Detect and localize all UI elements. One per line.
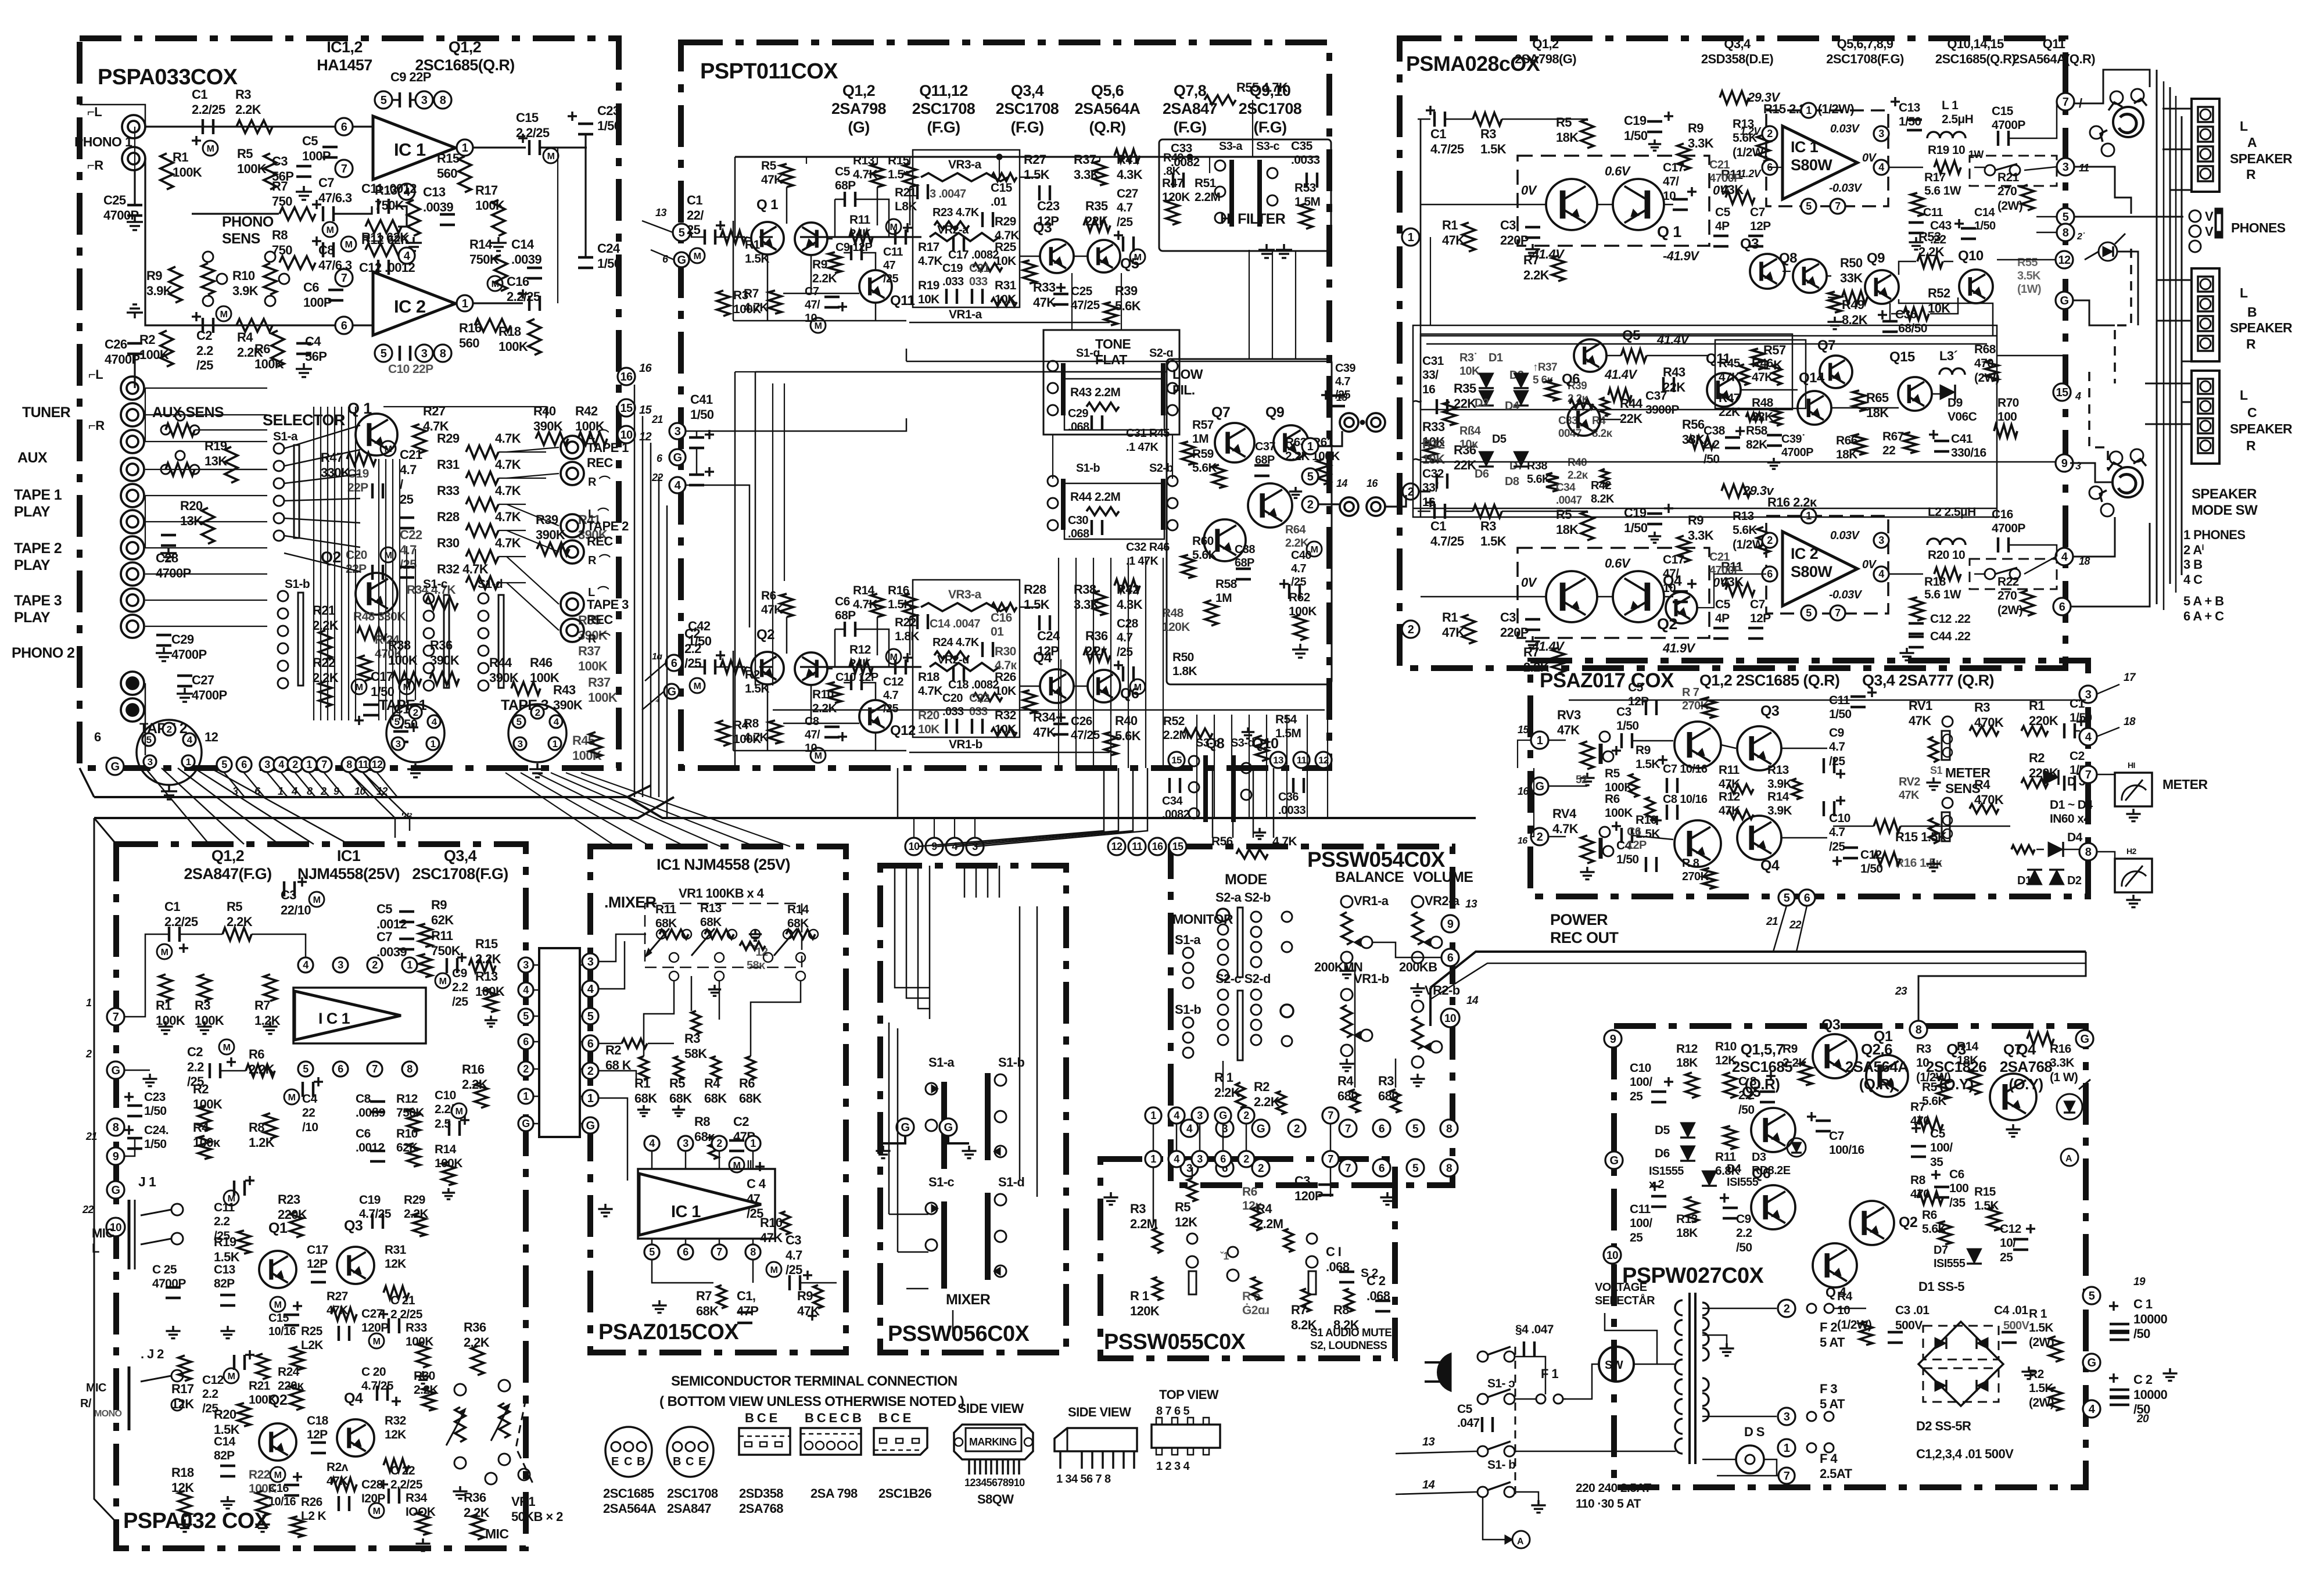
svg-text:A: A	[2065, 1154, 2072, 1164]
svg-text:R18: R18	[171, 1465, 194, 1480]
svg-text:3: 3	[1878, 534, 1884, 546]
svg-text:C22: C22	[969, 692, 989, 705]
svg-text:C26: C26	[1071, 715, 1092, 728]
svg-text:8 7 6 5: 8 7 6 5	[1156, 1405, 1189, 1418]
block B mid empty frame wires	[735, 371, 1167, 372]
svg-text:VR1-a: VR1-a	[1354, 894, 1389, 908]
svg-text:Q3,4: Q3,4	[1011, 82, 1044, 99]
svg-text:IN60 x4: IN60 x4	[2050, 812, 2090, 826]
svg-text:S80W: S80W	[1791, 156, 1832, 174]
svg-text:10K: 10K	[1459, 365, 1480, 378]
svg-text:R4: R4	[1837, 1290, 1853, 1303]
svg-text:68K: 68K	[739, 1091, 762, 1106]
svg-text:/10: /10	[302, 1121, 318, 1134]
svg-text:1.8K: 1.8K	[895, 630, 919, 643]
svg-text:5: 5	[2063, 211, 2069, 224]
svg-text:3: 3	[396, 738, 401, 749]
svg-text:1M: 1M	[1215, 591, 1232, 605]
svg-text:C9 22P: C9 22P	[390, 70, 431, 84]
svg-text:.01: .01	[991, 195, 1007, 209]
svg-text:R19: R19	[918, 279, 939, 292]
tone flat outer box	[1043, 330, 1179, 435]
svg-text:C5: C5	[835, 165, 851, 178]
svg-text:1: 1	[750, 1138, 756, 1149]
svg-text:L2K: L2K	[301, 1339, 323, 1352]
svg-text:R29: R29	[404, 1193, 425, 1207]
svg-text:4.7: 4.7	[786, 1248, 802, 1262]
svg-text:4: 4	[2089, 1403, 2096, 1416]
capacitor C41 330/16	[1929, 433, 1938, 436]
svg-text:R6: R6	[1605, 792, 1620, 806]
svg-text:120P: 120P	[361, 1321, 389, 1335]
transistor Q1b	[1613, 571, 1664, 622]
svg-text:C5: C5	[302, 134, 318, 148]
terminal 1	[1531, 731, 1548, 749]
svg-text:1.5M: 1.5M	[1294, 195, 1320, 209]
main rail wires	[1418, 119, 1430, 120]
svg-text:100K: 100K	[254, 357, 284, 371]
svg-text:D S: D S	[1744, 1425, 1764, 1439]
svg-text:R: R	[2246, 336, 2256, 351]
capacitor C12 .0012	[377, 260, 379, 275]
svg-text:1: 1	[1150, 1153, 1156, 1165]
capacitor C36 .68/50	[1878, 314, 1887, 316]
svg-text:J 1: J 1	[138, 1174, 156, 1189]
svg-text:C1: C1	[1430, 127, 1446, 141]
svg-text:M: M	[228, 1372, 235, 1382]
svg-text:C6: C6	[303, 280, 319, 295]
svg-text:IC1: IC1	[337, 847, 361, 864]
svg-text:390K: 390K	[533, 419, 563, 433]
svg-text:S80W: S80W	[1791, 563, 1832, 580]
svg-text:12: 12	[205, 730, 218, 744]
svg-text:R28: R28	[437, 510, 460, 524]
svg-text:5: 5	[146, 734, 152, 745]
wire phono1 R to IC2 rail	[145, 159, 372, 325]
svg-text:NJM4558(25V): NJM4558(25V)	[297, 865, 400, 883]
svg-text:R4: R4	[1974, 777, 1991, 792]
svg-text:5.6K: 5.6K	[1192, 461, 1217, 475]
svg-text:C11: C11	[1923, 206, 1943, 219]
svg-text:Q3: Q3	[1821, 1017, 1840, 1033]
jack TAPE3 PLAY R	[121, 615, 144, 638]
svg-text:4.3K: 4.3K	[1117, 597, 1143, 612]
pin 6 IC1	[335, 118, 353, 135]
svg-text:Q7: Q7	[1211, 404, 1230, 421]
svg-text:R 1: R 1	[1214, 1070, 1233, 1085]
svg-text:.0033: .0033	[1291, 153, 1320, 167]
svg-text:R36: R36	[464, 1320, 486, 1335]
svg-text:3.3K: 3.3K	[1688, 528, 1714, 543]
svg-text:4.7: 4.7	[1291, 562, 1306, 575]
board PSSW056COX outline	[880, 866, 1066, 1353]
svg-text:C14: C14	[1974, 206, 1995, 219]
block C rails to edge terminals	[2008, 102, 2057, 138]
svg-text:25: 25	[1630, 1231, 1643, 1244]
svg-text:100K: 100K	[572, 748, 602, 763]
svg-text:B C E: B C E	[878, 1411, 911, 1425]
svg-text:MONO: MONO	[94, 1409, 122, 1419]
selector wire bundle	[284, 425, 360, 449]
svg-text:5: 5	[679, 227, 685, 239]
svg-text:R30: R30	[414, 1369, 435, 1383]
svg-text:25: 25	[687, 223, 701, 237]
svg-text:R6: R6	[1922, 1208, 1937, 1222]
meter M2	[2115, 859, 2152, 892]
jack TAPE2 PLAY R	[121, 562, 144, 586]
svg-text:PSPA033COX: PSPA033COX	[98, 65, 238, 89]
svg-text:D3: D3	[1752, 1151, 1766, 1164]
svg-text:6: 6	[587, 1038, 594, 1050]
svg-text:220P: 220P	[1500, 625, 1529, 640]
svg-text:47/: 47/	[805, 729, 820, 741]
pin 7 IC1	[335, 160, 353, 177]
resistors R45-R48 grid	[1715, 340, 1806, 408]
svg-text:1: 1	[553, 738, 558, 749]
svg-text:.033: .033	[942, 705, 964, 718]
wire IC1 out	[456, 146, 526, 148]
svg-text:/25: /25	[883, 702, 898, 715]
terminal G	[1605, 1151, 1623, 1169]
main rail wires upper	[690, 232, 705, 237]
svg-text:1: 1	[1408, 231, 1414, 244]
svg-text:R51: R51	[1195, 177, 1217, 190]
svg-text:C10: C10	[435, 1089, 456, 1102]
svg-text:R25: R25	[301, 1325, 323, 1338]
svg-text:4700P: 4700P	[1992, 522, 2025, 535]
svg-text:10K: 10K	[918, 293, 939, 306]
svg-text:MODE SW: MODE SW	[2192, 503, 2258, 518]
svg-text:100/: 100/	[1630, 1075, 1652, 1089]
jack AUX L	[121, 430, 144, 453]
svg-text:110 ·30 5 AT: 110 ·30 5 AT	[1576, 1497, 1641, 1511]
svg-text:C23: C23	[1037, 199, 1060, 213]
wires upper drivers	[1827, 275, 1831, 277]
svg-text:S2, LOUDNESS: S2, LOUDNESS	[1310, 1340, 1387, 1352]
terminal 3 fuse F3	[1778, 1408, 1795, 1425]
svg-text:R ⌒: R ⌒	[588, 554, 611, 567]
svg-text:MARKING: MARKING	[969, 1436, 1017, 1448]
svg-text:1: 1	[431, 738, 436, 749]
svg-text:25: 25	[1630, 1090, 1643, 1103]
svg-text:1/50: 1/50	[597, 119, 621, 133]
right column long verticals	[2163, 81, 2165, 610]
svg-text:5: 5	[649, 1246, 655, 1258]
secondary wires	[1702, 1308, 1777, 1310]
svg-text:100K: 100K	[193, 1097, 223, 1111]
svg-text:/25: /25	[684, 656, 701, 670]
svg-text:D1: D1	[1489, 351, 1503, 364]
svg-text:100/16: 100/16	[1829, 1143, 1864, 1157]
svg-text:Q5: Q5	[1742, 1084, 1761, 1100]
svg-text:Q5,6,7,8,9: Q5,6,7,8,9	[1837, 37, 1893, 51]
svg-text:0.03V: 0.03V	[1830, 529, 1860, 542]
svg-text:Q7: Q7	[1817, 338, 1835, 353]
terminal 2 to C	[1403, 483, 1419, 500]
block A selector feed verticals	[378, 459, 379, 720]
svg-text:0.6V: 0.6V	[1605, 164, 1631, 178]
meter M1	[2115, 773, 2152, 806]
jack TAPE2 PLAY L	[121, 536, 144, 559]
svg-text:C18 .0082: C18 .0082	[948, 679, 999, 691]
svg-text:8: 8	[113, 1121, 119, 1134]
svg-text:47/25: 47/25	[1071, 299, 1100, 312]
svg-text:S1-c: S1-c	[928, 1175, 954, 1189]
svg-text:13K: 13K	[205, 454, 227, 468]
svg-text:M: M	[327, 225, 334, 235]
svg-text:R10: R10	[232, 268, 255, 283]
svg-text:2SA 798: 2SA 798	[810, 1486, 858, 1501]
terminal G2	[669, 449, 686, 465]
terminals 5 6 bottom	[1778, 889, 1795, 906]
speaker strip A	[2192, 99, 2219, 192]
ground terminals G G	[896, 1118, 914, 1136]
ground symbols	[604, 1204, 607, 1209]
edge connector ribbon	[539, 948, 580, 1137]
svg-text:2: 2	[1243, 1110, 1249, 1121]
svg-text:1: 1	[186, 756, 191, 767]
svg-text:C13: C13	[1899, 101, 1920, 114]
svg-text:23: 23	[1895, 985, 1907, 998]
svg-text:1: 1	[1537, 734, 1543, 747]
op-amp IC1 NJM4558 rect	[638, 1169, 775, 1239]
rotary speaker switch A	[2113, 107, 2143, 137]
svg-text:C9: C9	[1829, 726, 1844, 740]
svg-text:12P: 12P	[307, 1257, 328, 1271]
svg-text:12K: 12K	[171, 1480, 194, 1495]
jack PHONO1 R	[122, 147, 145, 170]
svg-text:ISI555: ISI555	[1934, 1257, 1966, 1270]
svg-text:C1: C1	[1430, 519, 1446, 533]
wire IC2 out	[456, 302, 523, 304]
svg-text:R18: R18	[1924, 575, 1946, 589]
svg-text:Q3,4: Q3,4	[1724, 37, 1751, 51]
svg-text:4.7: 4.7	[1335, 375, 1350, 388]
switch S2 contacts	[1307, 1233, 1317, 1244]
svg-text:2SA564A(Q.R): 2SA564A(Q.R)	[2013, 52, 2095, 66]
svg-text:M: M	[288, 1093, 296, 1103]
terminal 2 left	[582, 1063, 598, 1079]
svg-text:5: 5	[1307, 471, 1314, 483]
svg-text:R20 10: R20 10	[1928, 548, 1965, 562]
svg-text:Q3: Q3	[1740, 236, 1759, 252]
svg-text:47: 47	[883, 259, 896, 272]
svg-text:2.2: 2.2	[684, 641, 701, 656]
svg-text:C7: C7	[1750, 598, 1765, 611]
svg-text:IC 2: IC 2	[1791, 545, 1818, 562]
svg-text:(F.G): (F.G)	[1254, 119, 1287, 136]
svg-text:1: 1	[1784, 1442, 1790, 1455]
svg-text:3: 3	[1784, 1411, 1790, 1423]
svg-text:C4 .01: C4 .01	[1994, 1304, 2028, 1317]
svg-text:SPEAKER: SPEAKER	[2192, 486, 2257, 502]
svg-text:R9: R9	[1688, 513, 1703, 528]
svg-text:C7: C7	[376, 930, 392, 944]
vertical drops from B to switch boards	[918, 768, 1104, 846]
svg-text:/50: /50	[2133, 1402, 2150, 1416]
svg-text:2: 2	[167, 724, 172, 735]
svg-text:B C E C B: B C E C B	[805, 1411, 861, 1425]
svg-text:(F.G): (F.G)	[927, 119, 960, 136]
svg-text:D1 SS-5: D1 SS-5	[1918, 1279, 1964, 1294]
svg-text:9: 9	[1447, 918, 1454, 931]
svg-text:4.7K: 4.7K	[744, 301, 768, 314]
resistor R3 100K	[717, 290, 730, 316]
svg-text:R21: R21	[249, 1379, 271, 1393]
svg-text:Q1,2: Q1,2	[211, 847, 244, 864]
svg-text:47K: 47K	[1033, 725, 1056, 740]
block B right verticals near LOW FIL	[1249, 250, 1250, 359]
svg-text:8.2K: 8.2K	[1591, 493, 1615, 505]
svg-text:100K: 100K	[1605, 806, 1633, 820]
svg-text:§4 .047: §4 .047	[1515, 1323, 1554, 1336]
svg-text:470K: 470K	[1974, 792, 2004, 807]
svg-text:R7: R7	[1910, 1100, 1925, 1114]
svg-text:VR1-b: VR1-b	[949, 738, 982, 751]
svg-text:2.2M: 2.2M	[1195, 191, 1220, 204]
board PSPT011COX outline	[681, 42, 1329, 768]
bottom terminals of B	[1168, 752, 1185, 768]
drops to PSSW054 top	[1212, 768, 1214, 838]
svg-text:R56: R56	[1211, 835, 1233, 848]
svg-text:R5: R5	[1922, 1081, 1938, 1094]
svg-text:100K: 100K	[435, 1157, 462, 1170]
svg-text:x 2: x 2	[1649, 1178, 1664, 1191]
svg-text:R6: R6	[254, 342, 270, 356]
svg-text:R26: R26	[301, 1495, 322, 1509]
svg-text:M: M	[815, 321, 822, 331]
terminal G left	[107, 1061, 124, 1079]
svg-text:R12: R12	[1676, 1042, 1698, 1056]
svg-text:AUX: AUX	[17, 450, 48, 466]
svg-text:3.9K: 3.9K	[146, 284, 173, 298]
svg-text:. J 2: . J 2	[141, 1347, 164, 1361]
svg-text:MIC: MIC	[92, 1226, 114, 1240]
terminal 7	[2079, 766, 2097, 783]
svg-text:Q9: Q9	[1265, 404, 1284, 421]
terminal 15	[618, 399, 635, 417]
svg-text:D2: D2	[2067, 874, 2082, 887]
svg-text:R12: R12	[396, 1092, 418, 1106]
svg-text:2.2K: 2.2K	[1285, 537, 1309, 550]
svg-text:⌐L: ⌐L	[88, 367, 103, 382]
diode D4	[2011, 845, 2035, 853]
svg-text:10: 10	[1606, 1250, 1618, 1262]
capacitor C17 1/50	[352, 679, 367, 694]
svg-text:R30: R30	[437, 536, 460, 550]
svg-text:8: 8	[346, 759, 352, 770]
svg-text:Q5: Q5	[1120, 256, 1139, 272]
svg-text:R3: R3	[1130, 1201, 1146, 1216]
svg-text:D1: D1	[2017, 874, 2032, 887]
hybrid IC2 S80W dashed box	[1766, 516, 1888, 614]
svg-text:C24: C24	[597, 241, 621, 256]
svg-text:R11: R11	[849, 213, 870, 227]
svg-text:S3-b: S3-b	[1196, 737, 1220, 749]
speaker strip B	[2192, 268, 2219, 361]
svg-text:560: 560	[437, 166, 457, 181]
svg-text:C 2: C 2	[1367, 1274, 1386, 1288]
svg-text:R32 4.7K: R32 4.7K	[437, 562, 489, 576]
svg-text:7: 7	[1835, 607, 1841, 619]
svg-text:35: 35	[1930, 1156, 1943, 1169]
svg-text:R43: R43	[553, 683, 576, 697]
resistor R1 1.5K	[720, 231, 746, 243]
svg-text:R16 2.2κ: R16 2.2κ	[1767, 495, 1817, 510]
svg-text:M: M	[547, 152, 555, 162]
svg-text:13: 13	[1336, 392, 1347, 403]
terminal 9 right	[1441, 915, 1459, 932]
svg-text:R30: R30	[995, 645, 1016, 658]
svg-text:IC 2: IC 2	[394, 296, 425, 317]
wires to transformer	[1515, 1357, 1545, 1394]
svg-text:13K: 13K	[180, 514, 203, 528]
svg-text:1: 1	[462, 142, 468, 155]
pin 4 IC2	[399, 247, 415, 264]
pin 7 IC2	[335, 269, 353, 286]
svg-text:16: 16	[1518, 836, 1527, 846]
svg-text:6: 6	[341, 320, 347, 332]
svg-text:G: G	[673, 451, 682, 464]
jack TAPE3 PLAY L	[121, 589, 144, 612]
svg-text:PSAZ015COX: PSAZ015COX	[598, 1320, 739, 1344]
svg-text:68K: 68K	[704, 1091, 727, 1106]
svg-text:9: 9	[1610, 1033, 1616, 1046]
resistor R4 100K	[717, 720, 730, 746]
svg-text:2.2: 2.2	[187, 1060, 204, 1074]
svg-text:C 21: C 21	[390, 1294, 415, 1307]
main rail wires lower	[690, 666, 705, 668]
terminal 6 left	[582, 1035, 598, 1052]
board PSPA033COX outline	[80, 38, 619, 768]
svg-text:D6: D6	[1475, 468, 1489, 480]
svg-text:4.7K: 4.7K	[495, 431, 521, 446]
svg-text:PSSW054C0X: PSSW054C0X	[1307, 848, 1446, 871]
long feedback wires	[755, 371, 1167, 373]
svg-text:3: 3	[148, 756, 153, 767]
svg-text:15: 15	[1518, 724, 1529, 736]
svg-text:R18: R18	[918, 670, 940, 684]
svg-text:C25: C25	[1071, 285, 1093, 298]
svg-text:Q1: Q1	[1874, 1028, 1893, 1045]
svg-text:2SD358: 2SD358	[739, 1486, 783, 1501]
wires to S1-c	[889, 1214, 928, 1215]
svg-text:S3-a: S3-a	[1219, 140, 1243, 153]
svg-text:C15: C15	[1992, 105, 2014, 118]
resistor R18 100K	[528, 319, 541, 355]
svg-text:M: M	[313, 895, 321, 905]
svg-text:Q10: Q10	[1958, 248, 1984, 264]
svg-text:R40: R40	[533, 404, 556, 418]
svg-text:6: 6	[657, 453, 663, 464]
svg-text:C19: C19	[359, 1193, 381, 1207]
svg-text:R33: R33	[406, 1321, 427, 1335]
svg-text:C17 .0082: C17 .0082	[948, 249, 999, 261]
svg-text:25: 25	[2000, 1251, 2013, 1264]
speaker switch dashed	[1970, 156, 2057, 186]
bus verticals right	[2156, 70, 2158, 604]
svg-text:R 1: R 1	[2029, 1307, 2047, 1321]
svg-text:S1: S1	[1930, 765, 1942, 776]
svg-text:D8: D8	[1505, 475, 1519, 488]
svg-text:82K: 82K	[1746, 438, 1767, 451]
svg-text:TAPE 1: TAPE 1	[14, 487, 62, 503]
svg-text:G: G	[586, 1120, 595, 1132]
svg-text:R/: R/	[80, 1397, 92, 1410]
svg-text:7: 7	[113, 1011, 119, 1024]
svg-text:V: V	[2205, 209, 2214, 224]
verticals inside B to bottom border	[1058, 558, 1059, 768]
